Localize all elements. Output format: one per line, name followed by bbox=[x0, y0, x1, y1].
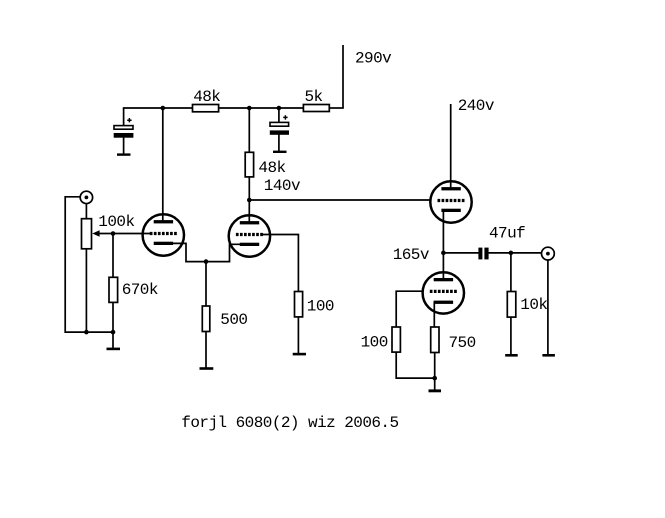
output jack bbox=[542, 247, 555, 260]
resistor 750 (V4 cathode) bbox=[431, 327, 439, 353]
capacitor C2 plus sign bbox=[283, 115, 287, 119]
wire node 140v to V3 grid bbox=[249, 199, 430, 201]
wire node 165v to coupling cap bbox=[443, 252, 479, 254]
wire capacitor C2 top lead bbox=[278, 108, 280, 123]
tube V1 grid bbox=[150, 232, 177, 235]
wire 500 resistor bottom lead bbox=[205, 331, 207, 368]
tube V3 plate bbox=[441, 187, 460, 190]
resistor 100 (V4 grid) bbox=[392, 327, 400, 352]
tube V2 cathode bbox=[240, 243, 259, 246]
tube V1 cathode bbox=[154, 242, 173, 245]
svg-text:290v: 290v bbox=[355, 50, 392, 68]
capacitor C1 plus sign bbox=[127, 118, 131, 122]
svg-text:10k: 10k bbox=[520, 296, 547, 314]
potentiometer 100k body bbox=[82, 219, 92, 249]
capacitor C1 positive plate bbox=[114, 126, 133, 130]
wire output jack ground lead bbox=[547, 260, 549, 354]
svg-text:500: 500 bbox=[220, 311, 247, 329]
wire V4 cathode to 750 resistor bbox=[433, 302, 435, 328]
resistor 48k (plate load, horizontal) bbox=[193, 105, 219, 112]
wire pot bottom lead bbox=[85, 249, 87, 333]
svg-text:100k: 100k bbox=[98, 213, 134, 231]
resistor 500 bbox=[202, 306, 210, 332]
wire 290v supply riser bbox=[342, 45, 344, 108]
node junction left bus / 670k bottom bbox=[111, 330, 116, 335]
tube V2 grid bbox=[236, 233, 263, 236]
tube V3 grid bbox=[438, 199, 465, 202]
svg-text:670k: 670k bbox=[122, 281, 158, 299]
tube V1 envelope bbox=[143, 214, 184, 255]
svg-text:5k: 5k bbox=[305, 88, 323, 106]
ground (below 100 V2 grid) bbox=[293, 353, 306, 356]
svg-text:48k: 48k bbox=[258, 159, 285, 177]
node junction bias network ground bbox=[432, 376, 437, 381]
tube V3 cathode bbox=[441, 209, 460, 212]
capacitor C2 negative plate bbox=[270, 130, 289, 134]
wire V1 plate riser bbox=[162, 108, 164, 221]
wire top rail segment right bbox=[329, 107, 344, 109]
wire ground stub below 670k bus bbox=[112, 332, 114, 348]
capacitor C2 positive plate bbox=[270, 122, 289, 126]
node junction grid / 670k bbox=[111, 231, 116, 236]
wire 100 resistor bottom lead to ground bbox=[297, 317, 299, 354]
tube V4 envelope bbox=[423, 272, 464, 313]
capacitor 47uf right plate bbox=[484, 248, 488, 260]
wire 48k dropper bottom lead to node 140v bbox=[248, 177, 250, 222]
wire capacitor C1 top lead bbox=[123, 108, 125, 127]
wire 500 resistor top lead bbox=[205, 262, 207, 307]
wire 670k top lead bbox=[112, 234, 114, 278]
ground (below 500) bbox=[200, 367, 214, 370]
capacitor 47uf left plate bbox=[478, 248, 482, 260]
wire coupling cap to output jack bbox=[488, 252, 541, 254]
ground (below 670k bus) bbox=[107, 348, 121, 351]
input jack bbox=[80, 191, 92, 203]
wire V1 grid to pot wiper bbox=[99, 233, 151, 235]
svg-text:750: 750 bbox=[449, 334, 476, 352]
node junction top rail / C2 bbox=[277, 106, 282, 111]
wire V4 grid to 100 resistor bbox=[396, 291, 423, 327]
node 165v junction bbox=[441, 251, 446, 256]
wire top rail segment middle bbox=[219, 107, 304, 109]
resistor 670k bbox=[109, 277, 118, 302]
resistor 100 (V2 grid) bbox=[295, 292, 303, 317]
ground (below V4 bias network) bbox=[429, 389, 442, 392]
tube V4 cathode bbox=[434, 301, 453, 304]
node 140v junction bbox=[247, 198, 252, 203]
resistor 5k (supply dropper, horizontal) bbox=[303, 105, 329, 112]
wire capacitor C2 bottom lead bbox=[278, 134, 280, 151]
wire input jack to left bus bbox=[65, 197, 113, 332]
wire 10k bottom lead bbox=[510, 317, 512, 355]
svg-text:100: 100 bbox=[307, 298, 334, 316]
node junction cap / 10k bbox=[509, 251, 514, 256]
wire V2 grid to 100 resistor bbox=[262, 235, 298, 292]
wire ground stub below V4 bias network bbox=[434, 378, 436, 390]
resistor 48k (vertical dropper) bbox=[245, 152, 253, 177]
svg-text:48k: 48k bbox=[193, 88, 220, 106]
ground (below C1) bbox=[117, 153, 131, 155]
wire capacitor C1 bottom lead bbox=[123, 137, 125, 154]
svg-text:240v: 240v bbox=[458, 97, 495, 115]
node junction cathodes / 500 bbox=[204, 259, 209, 264]
tube V2 plate bbox=[240, 221, 259, 224]
tube V4 grid bbox=[430, 290, 457, 293]
svg-text:165v: 165v bbox=[393, 246, 430, 264]
svg-text:100: 100 bbox=[361, 333, 388, 351]
wire input jack to pot top bbox=[85, 204, 87, 219]
wire 670k bottom lead bbox=[112, 302, 114, 332]
node junction top rail / 48k dropper bbox=[247, 106, 252, 111]
capacitor C1 negative plate bbox=[114, 133, 134, 138]
wire top rail segment left bbox=[123, 107, 193, 109]
wire 10k top lead bbox=[510, 253, 512, 292]
tube V4 plate bbox=[434, 278, 453, 281]
tube V2 envelope bbox=[229, 215, 270, 256]
ground (below output jack) bbox=[542, 354, 555, 357]
ground (below 10k) bbox=[505, 354, 518, 357]
potentiometer wiper arrow bbox=[92, 230, 99, 236]
wire V3 cathode down to V4 plate bbox=[442, 211, 444, 280]
node junction left bus / pot bottom bbox=[84, 330, 89, 335]
svg-text:140v: 140v bbox=[264, 177, 301, 195]
resistor 10k (output load) bbox=[507, 292, 516, 318]
wire 750 bottom lead bbox=[434, 352, 436, 378]
tube V3 envelope bbox=[430, 181, 471, 222]
svg-text:47uf: 47uf bbox=[489, 225, 525, 243]
wire V1 cathode to common node bbox=[173, 243, 241, 261]
svg-text:forjl 6080(2) wiz 2006.5: forjl 6080(2) wiz 2006.5 bbox=[181, 414, 398, 432]
ground (below C2) bbox=[273, 151, 287, 153]
node junction top rail / V1 plate bbox=[161, 106, 166, 111]
wire 48k dropper top lead bbox=[248, 108, 250, 153]
tube V1 plate bbox=[154, 220, 173, 223]
wire 240v supply to V3 plate bbox=[450, 104, 452, 188]
wire 100 grid resistor bottom lead bbox=[396, 352, 435, 378]
